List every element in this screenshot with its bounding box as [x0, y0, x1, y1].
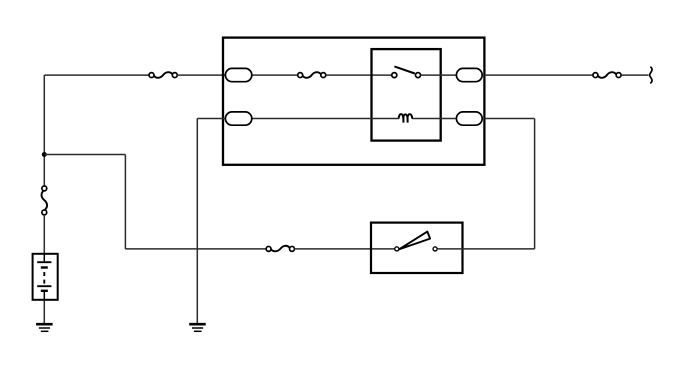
- wire switch to riser: [437, 248, 534, 250]
- connector oval bottom-left: [225, 112, 251, 125]
- relay contact (normally-open switch): [392, 66, 421, 77]
- circuit breaker F1: [149, 72, 177, 78]
- relay (inner box): [372, 49, 441, 141]
- battery cells: [37, 253, 51, 301]
- wire F5 to switch: [294, 248, 394, 250]
- switch contacts and lever: [395, 232, 437, 251]
- wire oval to F2: [252, 74, 298, 76]
- wire junction block to F3: [484, 74, 593, 76]
- wire F2 to relay contact: [326, 74, 392, 76]
- fusible link F4 (vertical): [42, 186, 48, 215]
- wire battery to ground: [43, 301, 45, 324]
- wire riser to oval bottom-right: [484, 118, 534, 120]
- continuation brace: [650, 67, 652, 83]
- wire junction to branch: [44, 154, 125, 156]
- wire F4 to battery: [43, 215, 45, 253]
- connector oval top-right: [456, 68, 482, 81]
- switch box: [371, 223, 463, 273]
- wire branch vertical: [124, 155, 126, 249]
- wire F3 to continuation mark: [621, 74, 649, 76]
- junction node: [42, 152, 47, 157]
- fuse F5: [266, 246, 294, 252]
- junction block (outer box): [223, 38, 484, 165]
- wire riser vertical: [534, 119, 536, 249]
- wire top-left horizontal: [44, 74, 149, 76]
- wire coil to oval bottom-right: [412, 118, 456, 120]
- wire branch to F5: [125, 248, 266, 250]
- ground G2: [189, 324, 206, 331]
- wire contact to oval top-right: [421, 74, 456, 76]
- relay coil: [399, 114, 413, 123]
- fuse F3: [593, 72, 621, 78]
- fuse F2: [298, 72, 326, 78]
- wire F1 to junction block: [177, 74, 225, 76]
- battery box: [33, 254, 58, 300]
- ground G1: [36, 324, 53, 331]
- wire oval bottom-left to coil: [252, 118, 399, 120]
- connector oval top-left: [225, 68, 251, 81]
- wire ground drop vertical: [196, 119, 198, 323]
- wire left vertical (battery feed): [43, 75, 45, 186]
- wire oval bottom-left to ground drop: [197, 118, 225, 120]
- connector oval bottom-right: [456, 112, 482, 125]
